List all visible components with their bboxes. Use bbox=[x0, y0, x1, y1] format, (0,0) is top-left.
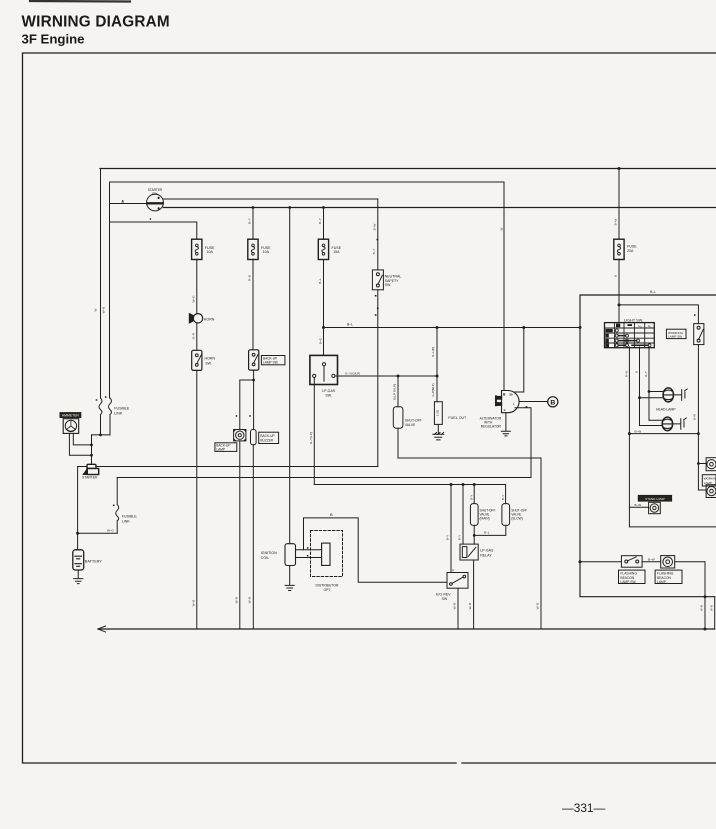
svg-text:B: B bbox=[614, 275, 618, 277]
svg-text:W–G: W–G bbox=[107, 529, 115, 533]
svg-text:B–W: B–W bbox=[692, 414, 696, 420]
svg-text:B–Y: B–Y bbox=[248, 218, 252, 224]
svg-text:W–G: W–G bbox=[192, 295, 196, 303]
svg-text:G–Y(G/LP): G–Y(G/LP) bbox=[345, 372, 360, 376]
svg-text:B: B bbox=[550, 399, 555, 406]
svg-text:SW.: SW. bbox=[325, 394, 332, 398]
svg-text:DISTRIBUTOR: DISTRIBUTOR bbox=[316, 583, 339, 587]
svg-text:LAMP: LAMP bbox=[657, 580, 667, 584]
svg-text:B–L: B–L bbox=[650, 290, 656, 294]
svg-text:SHUT-OFF: SHUT-OFF bbox=[405, 418, 422, 422]
svg-text:LAMP SW.: LAMP SW. bbox=[620, 580, 636, 584]
svg-text:B–W: B–W bbox=[614, 219, 618, 226]
svg-text:B–Y: B–Y bbox=[446, 535, 450, 540]
svg-text:VALVE: VALVE bbox=[405, 423, 416, 427]
svg-text:B: B bbox=[503, 392, 506, 396]
svg-text:STAND LAMP: STAND LAMP bbox=[645, 497, 665, 501]
svg-text:SW.: SW. bbox=[205, 361, 212, 365]
svg-text:W: W bbox=[94, 308, 98, 311]
svg-text:B: B bbox=[330, 512, 333, 517]
svg-text:3F Engine: 3F Engine bbox=[22, 32, 85, 47]
svg-text:—331—: —331— bbox=[562, 801, 605, 815]
svg-text:B–W: B–W bbox=[635, 429, 642, 433]
svg-text:RELAY: RELAY bbox=[480, 554, 492, 558]
svg-text:B–Y: B–Y bbox=[318, 218, 322, 224]
svg-text:W–B: W–B bbox=[700, 605, 704, 611]
svg-text:B–Y: B–Y bbox=[470, 495, 474, 500]
svg-text:B–Y: B–Y bbox=[501, 495, 505, 500]
svg-text:W–B: W–B bbox=[453, 603, 457, 610]
svg-text:G(LP G/LP): G(LP G/LP) bbox=[392, 384, 396, 400]
svg-text:SW.: SW. bbox=[152, 192, 158, 196]
svg-text:B–L: B–L bbox=[484, 531, 490, 535]
svg-text:1.6Ω: 1.6Ω bbox=[435, 409, 439, 416]
svg-text:G–B(B/LP): G–B(B/LP) bbox=[431, 383, 435, 396]
svg-text:P: P bbox=[452, 568, 454, 572]
svg-text:LAMP: LAMP bbox=[216, 448, 225, 452]
svg-text:BUZZER: BUZZER bbox=[260, 439, 273, 443]
svg-text:LP-GAS: LP-GAS bbox=[322, 389, 336, 393]
svg-text:10A: 10A bbox=[263, 250, 270, 254]
svg-text:R–B: R–B bbox=[248, 275, 252, 281]
svg-text:E/G REV.: E/G REV. bbox=[436, 592, 451, 596]
svg-text:B–W: B–W bbox=[372, 224, 376, 231]
svg-text:B–G: B–G bbox=[319, 337, 323, 344]
svg-text:B–L: B–L bbox=[347, 322, 353, 326]
svg-text:HORN: HORN bbox=[204, 318, 215, 322]
svg-text:HEAD LAMP: HEAD LAMP bbox=[656, 408, 676, 412]
svg-text:LINK: LINK bbox=[114, 411, 123, 415]
svg-text:AMMETER: AMMETER bbox=[62, 414, 80, 418]
svg-text:30: 30 bbox=[509, 393, 513, 397]
svg-text:STARTER: STARTER bbox=[82, 475, 98, 479]
svg-text:W–B: W–B bbox=[468, 603, 472, 610]
svg-text:LAMP SW: LAMP SW bbox=[668, 335, 682, 339]
svg-text:COIL: COIL bbox=[261, 556, 269, 560]
svg-text:LINK: LINK bbox=[122, 519, 131, 523]
svg-text:G: G bbox=[634, 371, 638, 373]
svg-text:W–B: W–B bbox=[536, 603, 540, 610]
svg-text:B–Y: B–Y bbox=[372, 249, 376, 255]
svg-text:BACK-UP: BACK-UP bbox=[260, 434, 274, 438]
svg-text:R–L(B): R–L(B) bbox=[431, 347, 435, 357]
svg-text:R–Y: R–Y bbox=[644, 371, 648, 377]
svg-text:20A: 20A bbox=[627, 249, 634, 253]
svg-text:W–B: W–B bbox=[234, 597, 238, 604]
svg-text:B–W: B–W bbox=[635, 503, 642, 507]
svg-text:L: L bbox=[513, 402, 515, 406]
svg-text:15A: 15A bbox=[333, 250, 340, 254]
svg-text:IGNITION: IGNITION bbox=[261, 551, 277, 555]
svg-text:B–L: B–L bbox=[318, 278, 322, 284]
svg-text:(SLOW): (SLOW) bbox=[511, 517, 523, 521]
svg-text:W–B: W–B bbox=[102, 307, 106, 314]
svg-text:W–B: W–B bbox=[192, 600, 196, 607]
svg-text:(MAIN): (MAIN) bbox=[480, 517, 490, 521]
svg-text:E: E bbox=[504, 408, 506, 412]
svg-text:BATTERY: BATTERY bbox=[85, 559, 103, 563]
svg-text:R–Y(LP): R–Y(LP) bbox=[309, 432, 313, 444]
svg-text:W–B: W–B bbox=[248, 597, 252, 604]
svg-text:WIRNING DIAGRAM: WIRNING DIAGRAM bbox=[22, 14, 170, 31]
svg-text:HORN: HORN bbox=[205, 357, 216, 361]
svg-text:LAMP: LAMP bbox=[704, 481, 712, 485]
svg-text:W: W bbox=[122, 200, 125, 204]
svg-text:LAMP SW.: LAMP SW. bbox=[263, 361, 278, 365]
svg-text:SW.: SW. bbox=[385, 283, 392, 287]
svg-text:R–Y: R–Y bbox=[458, 535, 462, 541]
svg-text:FUSIBLE: FUSIBLE bbox=[114, 406, 130, 410]
svg-text:FUSE: FUSE bbox=[627, 245, 637, 249]
svg-text:W: W bbox=[499, 227, 503, 230]
svg-text:B–W: B–W bbox=[648, 557, 655, 561]
svg-text:10A: 10A bbox=[207, 250, 214, 254]
svg-text:SW: SW bbox=[442, 597, 448, 601]
svg-text:W–B: W–B bbox=[709, 605, 713, 611]
svg-text:FUSIBLE: FUSIBLE bbox=[122, 514, 138, 518]
svg-text:R–W: R–W bbox=[624, 371, 628, 378]
svg-text:OPT: OPT bbox=[324, 588, 331, 592]
svg-text:LIGHT SW.: LIGHT SW. bbox=[624, 319, 643, 323]
svg-text:G–R: G–R bbox=[192, 332, 196, 339]
svg-text:FUEL CUT: FUEL CUT bbox=[448, 416, 467, 420]
svg-text:LP-GAS: LP-GAS bbox=[480, 549, 494, 553]
svg-text:REGULATOR: REGULATOR bbox=[481, 425, 502, 429]
